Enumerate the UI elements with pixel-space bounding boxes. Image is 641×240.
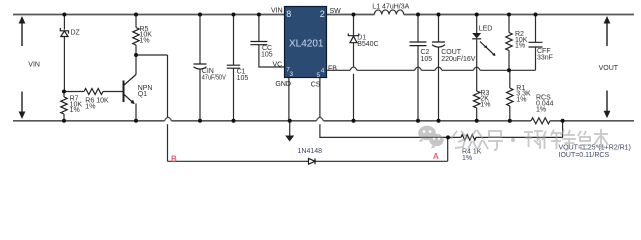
capacitor COUT: [438, 15, 440, 121]
svg-text:1%: 1%: [140, 37, 150, 44]
terminal arrow VIN- down: [21, 92, 23, 114]
svg-text:GND: GND: [275, 81, 291, 88]
svg-text:SW: SW: [330, 8, 342, 15]
LED emission arrows: [480, 42, 494, 55]
LED symbol: [472, 33, 481, 38]
watermark text 公众号·硬件笔记本: [451, 129, 608, 150]
wire B bottom line: [168, 137, 448, 161]
watermark wechat icon: [418, 126, 443, 149]
IC FB wire with hops: [327, 50, 536, 71]
svg-text:B: B: [171, 154, 177, 163]
wire hop of B line over bottom rail: [165, 117, 172, 121]
diode 1N4148 symbol: [306, 158, 317, 164]
svg-text:Q1: Q1: [138, 91, 147, 98]
svg-text:A: A: [433, 152, 439, 161]
svg-text:VIN: VIN: [28, 61, 40, 68]
hop FB over LED-R3: [473, 67, 480, 70]
zener diode DZ wire: [63, 15, 65, 92]
svg-text:DZ: DZ: [71, 29, 81, 36]
resistor R2: [508, 15, 510, 71]
wire SW rail segment IC to L1: [327, 14, 375, 16]
svg-text:8: 8: [286, 9, 291, 19]
IC XL4201 pin GND wire: [288, 78, 290, 121]
resistor RCS inline in bottom rail: [531, 118, 550, 124]
capacitor C1: [233, 15, 235, 121]
svg-text:1%: 1%: [70, 107, 80, 114]
op-amp U1 : IC XL4201 body: [285, 7, 327, 78]
zener DZ symbol: [60, 28, 68, 37]
svg-text:4: 4: [321, 68, 325, 75]
svg-text:FB: FB: [328, 66, 337, 73]
wire top rail VIN left segment: [13, 14, 285, 16]
transistor Q1: [124, 55, 137, 121]
terminal arrow VIN+ up: [21, 21, 23, 46]
terminal arrow VOUT- down: [606, 91, 608, 113]
diode D1 B540C: [353, 15, 355, 121]
svg-text:VC: VC: [273, 62, 283, 69]
svg-text:3: 3: [290, 71, 294, 78]
resistor R7: [63, 92, 65, 121]
terminal arrow VOUT+ up: [606, 21, 608, 46]
hop FB over D1: [350, 67, 357, 70]
svg-text:1%: 1%: [462, 155, 472, 162]
svg-text:33nF: 33nF: [537, 55, 553, 62]
resistor R4: [448, 121, 563, 138]
svg-text:220uF/16V: 220uF/16V: [441, 56, 476, 63]
resistor R3: [476, 108, 478, 121]
svg-text:1%: 1%: [85, 103, 95, 110]
LED chain wire: [476, 15, 478, 92]
wire VOUT rail after L1: [404, 14, 634, 16]
IC CS pin wire down and right: [320, 78, 448, 138]
svg-text:1N4148: 1N4148: [298, 148, 323, 155]
svg-text:1%: 1%: [480, 101, 490, 108]
capacitor C2: [417, 15, 419, 121]
hop FB over COUT: [435, 67, 442, 70]
capacitor CC: [259, 15, 285, 68]
capacitor CIN: [199, 15, 201, 121]
svg-text:5: 5: [317, 72, 321, 79]
svg-text:47uF/50V: 47uF/50V: [202, 74, 226, 81]
svg-text:2: 2: [320, 9, 325, 19]
resistor R6: [64, 91, 124, 93]
wire hop of CS line over bottom rail: [316, 117, 323, 121]
svg-text:105: 105: [261, 51, 273, 58]
svg-text:CS: CS: [311, 81, 321, 88]
capacitor CFF: [535, 15, 537, 43]
svg-text:VOUT: VOUT: [599, 65, 619, 72]
inductor L1: [374, 10, 403, 15]
svg-text:1%: 1%: [536, 106, 546, 113]
resistor R1: [509, 70, 511, 121]
svg-text:VIN: VIN: [271, 8, 283, 15]
hop FB over C2: [415, 67, 422, 70]
resistor R5: [135, 15, 137, 56]
wire bottom return rail with hops and RCS gap: [13, 120, 634, 122]
svg-text:XL4201: XL4201: [289, 39, 324, 50]
svg-text:1%: 1%: [515, 43, 525, 50]
wire node R5/Q1 collector to B line: [136, 55, 168, 161]
ground symbol: [289, 121, 291, 136]
svg-text:105: 105: [421, 56, 433, 63]
svg-text:L1 47uH/3A: L1 47uH/3A: [372, 4, 409, 11]
svg-text:105: 105: [237, 75, 249, 82]
svg-text:IOUT=0.11/RCS: IOUT=0.11/RCS: [559, 152, 610, 159]
svg-text:LED: LED: [479, 26, 493, 33]
svg-text:B540C: B540C: [357, 41, 378, 48]
svg-text:1%: 1%: [516, 97, 526, 104]
